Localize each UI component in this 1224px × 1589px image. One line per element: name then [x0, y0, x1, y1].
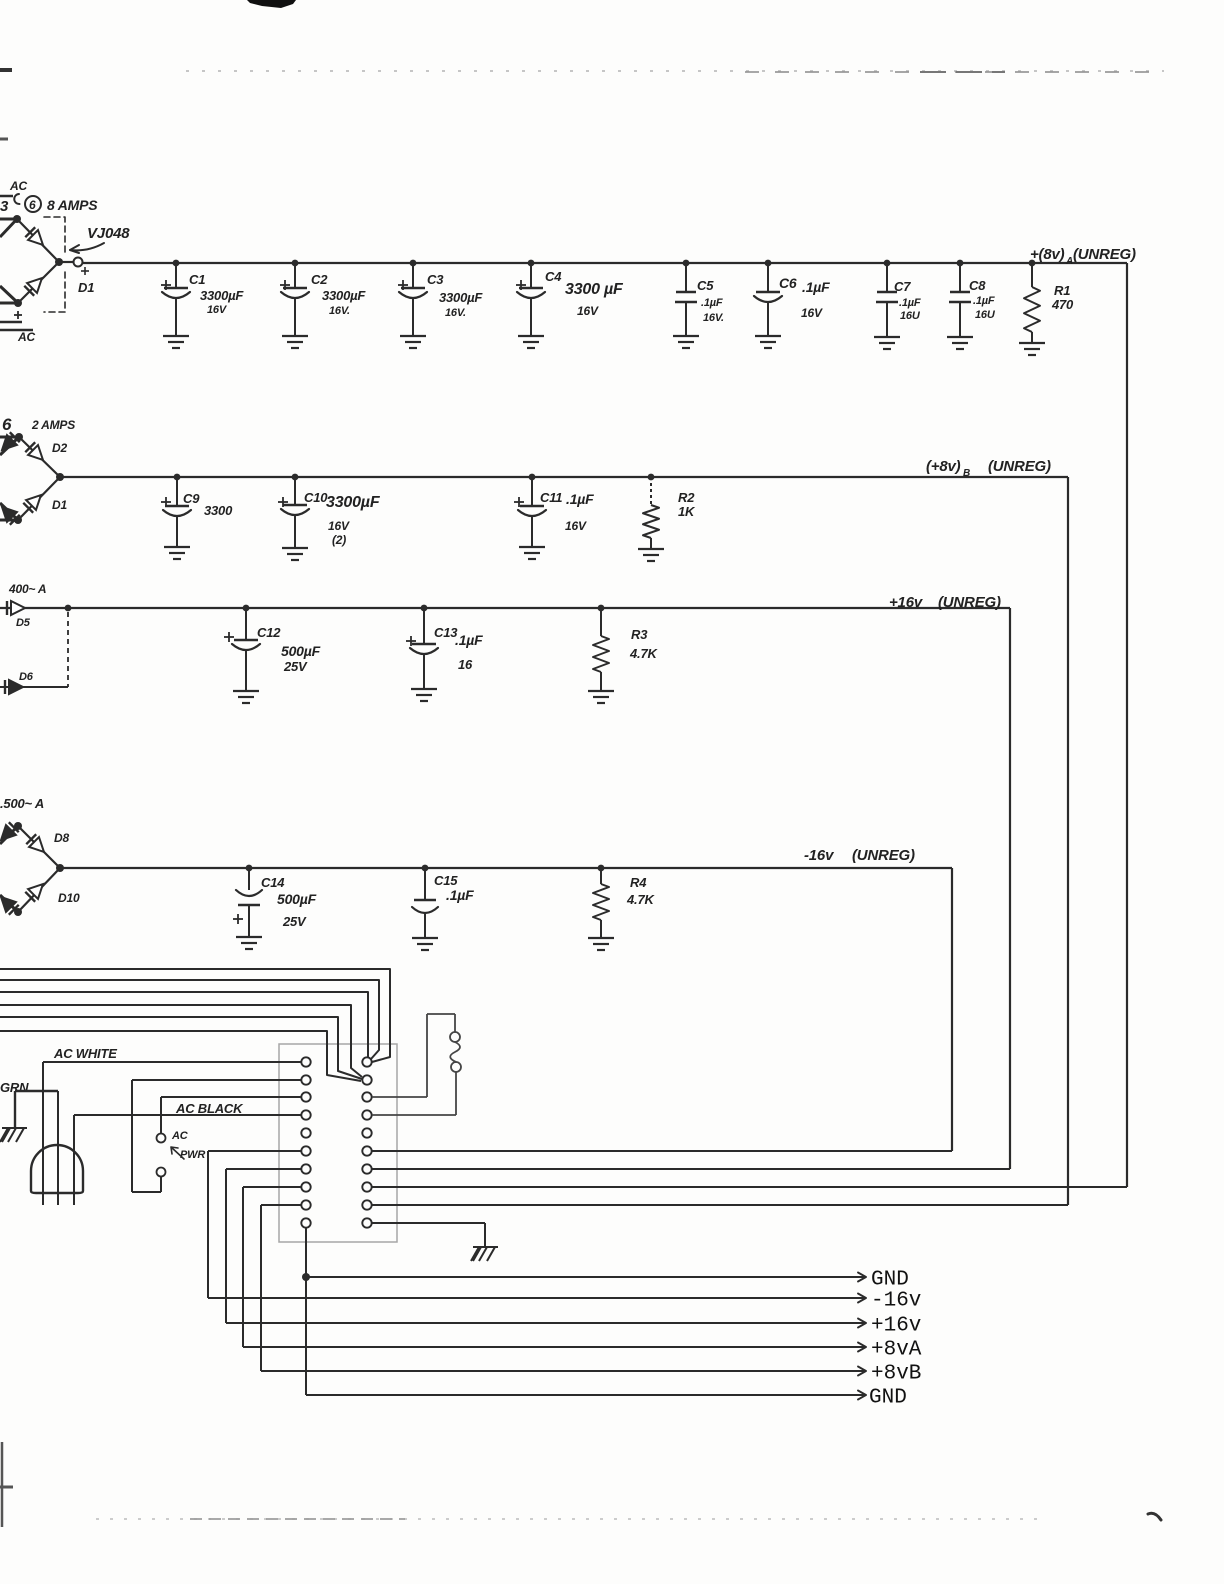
svg-text:16V: 16V [207, 304, 228, 316]
svg-text:C9: C9 [183, 491, 200, 506]
svg-text:2 AMPS: 2 AMPS [31, 418, 75, 432]
svg-text:C5: C5 [697, 278, 714, 293]
svg-text:GND: GND [871, 1269, 909, 1292]
svg-text:C2: C2 [311, 272, 328, 287]
svg-text:A: A [1065, 256, 1073, 267]
svg-text:+16v: +16v [889, 594, 924, 611]
svg-text:R4: R4 [630, 875, 647, 890]
svg-text:R3: R3 [631, 627, 648, 642]
svg-text:AC WHITE: AC WHITE [53, 1046, 117, 1061]
svg-text:.1µF: .1µF [973, 295, 995, 307]
svg-text:C3: C3 [427, 272, 444, 287]
svg-text:3300 µF: 3300 µF [565, 281, 624, 298]
svg-text:500µF: 500µF [281, 643, 321, 659]
svg-text:500µF: 500µF [277, 891, 317, 907]
svg-text:R2: R2 [678, 490, 695, 505]
svg-text:B: B [963, 468, 970, 479]
svg-text:.500~ A: .500~ A [0, 796, 44, 811]
svg-text:C10: C10 [304, 490, 328, 505]
svg-text:D2: D2 [52, 441, 67, 455]
svg-text:25V: 25V [283, 659, 308, 674]
svg-text:D10: D10 [58, 891, 80, 905]
svg-text:R1: R1 [1054, 283, 1070, 298]
svg-text:D1: D1 [52, 498, 67, 512]
svg-text:(2): (2) [332, 533, 346, 547]
svg-text:16V: 16V [801, 306, 823, 320]
svg-text:16V.: 16V. [703, 312, 724, 324]
svg-text:(UNREG): (UNREG) [988, 458, 1051, 475]
svg-text:C15: C15 [434, 873, 458, 888]
svg-text:D8: D8 [54, 831, 69, 845]
svg-text:C14: C14 [261, 875, 285, 890]
svg-text:16V: 16V [565, 519, 587, 533]
svg-text:16: 16 [458, 657, 473, 672]
svg-text:C6: C6 [779, 275, 797, 291]
svg-text:+16v: +16v [871, 1315, 921, 1338]
svg-text:.1µF: .1µF [899, 297, 921, 309]
svg-text:3300µF: 3300µF [322, 288, 366, 303]
svg-text:D6: D6 [19, 671, 34, 683]
svg-text:16V: 16V [328, 519, 350, 533]
svg-text:3300µF: 3300µF [439, 290, 483, 305]
svg-text:AC: AC [171, 1130, 189, 1142]
svg-text:3300µF: 3300µF [200, 288, 244, 303]
svg-text:AC: AC [9, 179, 27, 193]
svg-text:C12: C12 [257, 625, 281, 640]
svg-text:.1µF: .1µF [455, 632, 483, 648]
svg-text:(UNREG): (UNREG) [938, 594, 1001, 611]
svg-text:6: 6 [2, 415, 12, 434]
svg-text:.1µF: .1µF [701, 297, 723, 309]
svg-text:4.7K: 4.7K [626, 892, 655, 907]
svg-text:-16v: -16v [871, 1290, 921, 1313]
svg-text:.1µF: .1µF [446, 887, 474, 903]
svg-text:C7: C7 [894, 279, 911, 294]
svg-text:470: 470 [1051, 297, 1074, 312]
svg-text:+8vB: +8vB [871, 1363, 921, 1386]
svg-text:16V.: 16V. [329, 305, 350, 317]
svg-text:VJ048: VJ048 [87, 225, 130, 242]
svg-text:8 AMPS: 8 AMPS [47, 197, 98, 213]
svg-text:3: 3 [0, 198, 9, 215]
svg-text:AC: AC [17, 330, 35, 344]
svg-text:-16v: -16v [804, 847, 835, 864]
svg-text:+8vA: +8vA [871, 1339, 922, 1362]
svg-text:3300: 3300 [204, 503, 233, 518]
svg-text:D1: D1 [78, 280, 94, 295]
svg-text:C11: C11 [540, 490, 562, 505]
svg-text:(UNREG): (UNREG) [852, 847, 915, 864]
svg-text:(UNREG): (UNREG) [1073, 246, 1136, 263]
svg-text:1K: 1K [678, 504, 696, 519]
svg-text:4.7K: 4.7K [629, 646, 658, 661]
svg-text:400~ A: 400~ A [8, 582, 46, 596]
svg-text:C4: C4 [545, 269, 562, 284]
svg-text:16U: 16U [900, 310, 921, 322]
svg-text:25V: 25V [282, 914, 307, 929]
svg-text:+(8v): +(8v) [1030, 246, 1065, 263]
svg-text:16U: 16U [975, 309, 996, 321]
svg-text:AC BLACK: AC BLACK [175, 1101, 244, 1116]
svg-text:.1µF: .1µF [802, 279, 830, 295]
svg-text:C8: C8 [969, 278, 986, 293]
svg-text:16V: 16V [577, 304, 599, 318]
svg-text:(+8v): (+8v) [926, 458, 961, 475]
svg-text:16V.: 16V. [445, 307, 466, 319]
svg-text:6: 6 [29, 198, 36, 212]
svg-text:C1: C1 [189, 272, 205, 287]
svg-text:GND: GND [869, 1387, 907, 1410]
svg-text:.1µF: .1µF [566, 491, 594, 507]
svg-text:3300µF: 3300µF [326, 494, 381, 511]
svg-text:D5: D5 [16, 617, 31, 629]
